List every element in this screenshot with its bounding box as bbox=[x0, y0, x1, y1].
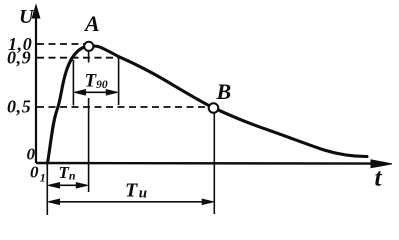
svg-text:T90: T90 bbox=[85, 71, 108, 92]
dashed level line 1,0 bbox=[37, 43, 85, 45]
U axis bbox=[32, 5, 40, 163]
svg-text:U: U bbox=[19, 6, 35, 28]
svg-text:t: t bbox=[375, 165, 383, 192]
svg-text:01: 01 bbox=[30, 163, 46, 185]
svg-text:Tп: Tп bbox=[59, 163, 76, 183]
vertical line below point B bbox=[213, 113, 215, 214]
dashed level line 0,9 bbox=[37, 57, 119, 59]
T90 left boundary line bbox=[72, 60, 74, 106]
T90 right boundary line bbox=[118, 56, 120, 105]
dashed level line 0,5 bbox=[37, 106, 208, 108]
point marker B bbox=[209, 103, 219, 113]
svg-text:Tи: Tи bbox=[125, 180, 147, 202]
T90 dimension arrow bbox=[74, 90, 117, 95]
vertical line below pulse start bbox=[46, 163, 48, 215]
vertical guide below peak A bbox=[88, 51, 90, 63]
Ti dimension arrow bbox=[48, 199, 213, 204]
point marker A bbox=[84, 42, 93, 51]
svg-text:0,9: 0,9 bbox=[7, 48, 31, 68]
svg-text:0: 0 bbox=[27, 145, 36, 164]
svg-text:A: A bbox=[83, 11, 100, 36]
svg-text:B: B bbox=[216, 79, 232, 104]
Tp dimension arrow bbox=[48, 183, 87, 188]
pulse curve bbox=[48, 46, 368, 163]
svg-text:0,5: 0,5 bbox=[7, 97, 31, 117]
t axis bbox=[36, 160, 392, 168]
